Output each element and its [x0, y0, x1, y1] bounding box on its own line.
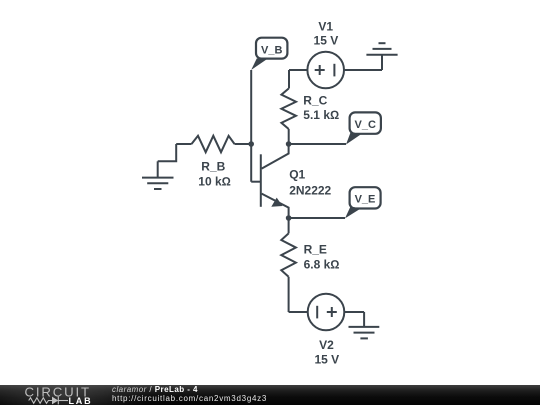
svg-text:V_B: V_B	[261, 44, 282, 56]
svg-text:15 V: 15 V	[314, 352, 339, 366]
svg-text:R_C: R_C	[303, 93, 327, 107]
svg-text:V_E: V_E	[355, 194, 376, 206]
svg-text:LAB: LAB	[69, 396, 93, 405]
wire base stub	[251, 181, 261, 183]
ground G1 (top right, pointing up)	[366, 43, 397, 70]
wire V1 left lead	[289, 69, 307, 71]
transistor Q1 emitter lead	[262, 194, 289, 218]
wire R_B to ground elbow	[158, 144, 177, 161]
wire R_B right lead	[235, 143, 252, 145]
svg-text:Q1: Q1	[289, 168, 305, 182]
resistor R_C	[281, 89, 296, 130]
ground G3 (bottom right)	[349, 312, 380, 338]
voltage source V1	[307, 52, 344, 89]
resistor R_B	[192, 136, 235, 152]
node collector junction	[286, 141, 292, 147]
wire R_C bottom lead	[288, 129, 290, 144]
wire R_B left lead	[176, 143, 191, 145]
svg-text:6.8 kΩ: 6.8 kΩ	[304, 257, 340, 271]
transistor Q1 collector lead	[262, 144, 289, 169]
svg-text:10 kΩ: 10 kΩ	[198, 174, 231, 188]
wire V1-to-RC elbow	[288, 70, 290, 89]
wire V1 right lead	[344, 69, 382, 71]
wire to V2 left	[289, 311, 308, 313]
svg-text:2N2222: 2N2222	[289, 183, 331, 197]
wire R_E top lead	[288, 218, 290, 233]
wire base vertical (V_B to base)	[250, 70, 252, 182]
node emitter junction	[286, 215, 292, 221]
voltage source V2	[308, 294, 345, 331]
wire R_E bottom lead	[288, 277, 290, 312]
node flag V_B	[251, 38, 287, 70]
wire collector to V_C flag	[289, 143, 346, 145]
transistor Q1 emitter arrow	[271, 198, 282, 207]
svg-text:5.1 kΩ: 5.1 kΩ	[303, 108, 339, 122]
svg-text:R_B: R_B	[201, 160, 225, 174]
svg-text:V1: V1	[318, 19, 333, 33]
resistor R_E	[281, 233, 296, 276]
wire emitter to V_E flag	[289, 217, 345, 219]
node flag V_E	[345, 187, 381, 218]
wire V2 right lead	[344, 311, 364, 313]
svg-text:R_E: R_E	[304, 243, 327, 257]
ground G2 (left)	[142, 161, 174, 189]
svg-text:V2: V2	[319, 338, 334, 352]
svg-text:V_C: V_C	[354, 119, 375, 131]
transistor Q1 base bar	[260, 154, 262, 207]
node base junction	[248, 141, 254, 147]
CircuitLab logo	[24, 385, 104, 405]
node flag V_C	[346, 112, 381, 144]
svg-text:15 V: 15 V	[314, 34, 339, 48]
footer bar	[0, 385, 540, 405]
footer credit text	[112, 385, 267, 403]
